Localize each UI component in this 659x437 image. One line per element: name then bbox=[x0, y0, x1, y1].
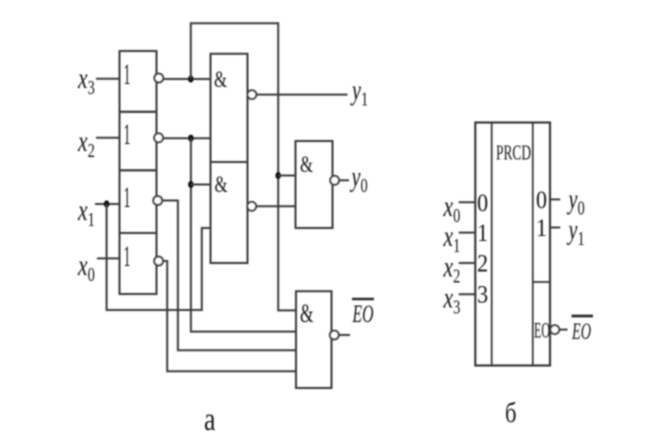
block label EO-bar bbox=[572, 315, 594, 318]
wire x0 input bbox=[97, 257, 120, 259]
block inner left divider bbox=[491, 123, 493, 366]
block pin y1 wire bbox=[550, 227, 560, 229]
svg-text:1: 1 bbox=[124, 181, 131, 214]
block pin x0 wire bbox=[459, 201, 476, 203]
AND1 output bubble bbox=[248, 90, 257, 99]
inverter DD2 box (x2) bbox=[120, 112, 157, 171]
block pin y0 wire bbox=[550, 198, 560, 200]
AND gate U3 (y0) box bbox=[296, 141, 333, 228]
block pin x1 wire bbox=[459, 232, 476, 234]
svg-text:PRCD: PRCD bbox=[496, 141, 531, 165]
block pin x2 wire bbox=[459, 262, 476, 264]
svg-text:1: 1 bbox=[477, 220, 488, 247]
wire AND2 out to y0 gate bbox=[256, 205, 295, 207]
inverter DD4 output bubble bbox=[154, 257, 163, 266]
wire y1 output bbox=[256, 94, 347, 96]
svg-text:б: б bbox=[505, 397, 517, 429]
wire nx3 to AND1 bbox=[163, 78, 210, 80]
svg-text:1: 1 bbox=[536, 215, 547, 242]
svg-text:x3: x3 bbox=[77, 62, 95, 99]
svg-text:x2: x2 bbox=[77, 125, 95, 162]
block pin EO wire bbox=[559, 329, 567, 331]
node nx3 junction bbox=[188, 75, 194, 82]
svg-text:1: 1 bbox=[124, 58, 131, 91]
node nx3 tap to y0 gate bbox=[275, 172, 281, 179]
inverter DD1 box (x3) bbox=[120, 51, 157, 112]
wire y0 output bbox=[339, 179, 349, 181]
svg-text:x0: x0 bbox=[77, 249, 95, 286]
svg-text:EO: EO bbox=[571, 319, 591, 344]
node nx2 junction bbox=[188, 135, 194, 142]
wire nx2 to AND2 bbox=[191, 184, 211, 186]
svg-text:а: а bbox=[204, 402, 216, 437]
wire x3 input bbox=[96, 78, 120, 80]
node x1 branch junction bbox=[104, 200, 110, 207]
block PRCD outer box bbox=[475, 123, 550, 366]
svg-text:EO: EO bbox=[352, 301, 374, 328]
inverter DD3 output bubble bbox=[153, 196, 162, 205]
block EO bubble bbox=[550, 325, 559, 334]
svg-text:0: 0 bbox=[536, 187, 547, 214]
inverter DD4 box (x0) bbox=[120, 233, 157, 294]
wire nx3 to y0 gate bbox=[278, 175, 295, 177]
svg-text:y1: y1 bbox=[350, 75, 369, 110]
wire x2 input bbox=[96, 137, 120, 139]
svg-text:0: 0 bbox=[477, 190, 488, 217]
AND2 output bubble bbox=[247, 202, 256, 211]
wire nx2 to AND1 bbox=[163, 137, 211, 139]
svg-text:3: 3 bbox=[477, 282, 488, 309]
wire x1 direct to AND2 bbox=[107, 204, 211, 310]
svg-text:y0: y0 bbox=[566, 184, 585, 219]
block inner right divider bbox=[532, 123, 534, 366]
svg-text:1: 1 bbox=[124, 118, 131, 151]
wire x1 input bbox=[95, 203, 120, 205]
inverter DD2 output bubble bbox=[154, 133, 163, 142]
U3 output bubble bbox=[330, 176, 339, 185]
AND gate AND1 box bbox=[211, 54, 248, 162]
svg-text:&: & bbox=[300, 298, 314, 328]
svg-text:2: 2 bbox=[477, 251, 488, 278]
inverter DD3 box (x1) bbox=[120, 170, 157, 233]
svg-text:y0: y0 bbox=[349, 162, 368, 197]
block right strip divider bbox=[533, 281, 550, 283]
wire nx2 down to EO gate bbox=[191, 138, 296, 331]
node nx2 tap to AND2 bbox=[188, 181, 194, 188]
wire nx3 bracket over to EO column bbox=[191, 23, 296, 310]
wire EO output bbox=[339, 334, 350, 336]
inverter DD1 output bubble bbox=[154, 74, 163, 83]
svg-text:&: & bbox=[215, 172, 228, 198]
svg-text:&: & bbox=[300, 152, 313, 178]
wire nx1 to EO gate bbox=[162, 201, 296, 351]
svg-text:1: 1 bbox=[124, 240, 131, 273]
block pin x3 wire bbox=[459, 293, 476, 295]
AND gate AND2 box bbox=[211, 162, 248, 263]
svg-text:&: & bbox=[214, 67, 227, 93]
svg-text:x1: x1 bbox=[77, 194, 95, 231]
AND gate U4 (EO) box bbox=[296, 291, 332, 388]
label EO-bar output bbox=[352, 298, 374, 301]
svg-text:y1: y1 bbox=[566, 215, 585, 250]
wire nx0 to EO gate bbox=[163, 261, 296, 371]
svg-text:EO: EO bbox=[534, 318, 550, 343]
U4 output bubble bbox=[330, 331, 339, 340]
